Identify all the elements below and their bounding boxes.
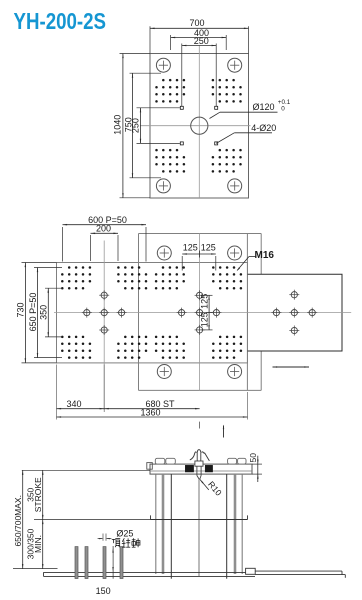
- nozzle hat: [190, 452, 197, 460]
- svg-text:1360: 1360: [140, 407, 160, 417]
- svg-text:MIN.: MIN.: [33, 535, 43, 553]
- dim 700: [149, 26, 151, 53]
- svg-text:250: 250: [131, 118, 141, 133]
- tie bar circles middle: [157, 246, 171, 260]
- label 4-D20: [216, 133, 234, 144]
- svg-text:700: 700: [189, 18, 204, 28]
- svg-text:50: 50: [248, 453, 258, 463]
- ejector hole pattern protrusion: [291, 310, 297, 316]
- side view: platen slab: [150, 464, 252, 474]
- dim 200: [90, 235, 92, 261]
- label D120 with tolerance: [210, 112, 220, 118]
- dim 650 P=50: [34, 267, 62, 269]
- ejector hole pattern fixed platen: [197, 310, 203, 316]
- label R10: [200, 480, 203, 484]
- svg-text:650 P=50: 650 P=50: [28, 293, 38, 332]
- label M16: [249, 256, 256, 258]
- top view: stationary platen plate: [150, 54, 249, 199]
- injection unit protrusion: [248, 274, 343, 351]
- dim 250 top: [181, 44, 183, 107]
- svg-text:125: 125: [200, 294, 210, 309]
- locating ring bore (center circle): [191, 117, 208, 134]
- dim 125 125 vertical: [201, 294, 213, 296]
- centerlines middle view: [54, 312, 351, 314]
- svg-text:Ø25: Ø25: [116, 528, 133, 538]
- svg-text:125: 125: [201, 243, 216, 253]
- svg-text:150: 150: [96, 586, 111, 596]
- dim 50: [252, 463, 262, 465]
- svg-text:650/700MAX.: 650/700MAX.: [13, 495, 23, 547]
- dim 750: [130, 72, 162, 74]
- svg-text:350: 350: [39, 305, 49, 320]
- svg-text:125: 125: [183, 243, 198, 253]
- bottom dims 340 / 680 ST: [56, 365, 58, 420]
- nozzle stem: [196, 466, 198, 475]
- svg-text:STROKE: STROKE: [33, 477, 43, 512]
- dim 150 vertical: [112, 546, 114, 579]
- left clamp notch: [147, 463, 153, 470]
- moving platen bar: [57, 263, 248, 363]
- vertical motion arrow: [223, 426, 225, 438]
- svg-text:M16: M16: [255, 250, 275, 261]
- machine base: [44, 571, 256, 573]
- svg-text:YH-200-2S: YH-200-2S: [14, 8, 107, 34]
- svg-text:340: 340: [66, 399, 81, 409]
- svg-text:730: 730: [16, 302, 26, 317]
- step line on back plate: [246, 234, 248, 391]
- hole grids middle view: [68, 266, 71, 269]
- center line side view: [198, 480, 200, 577]
- ejector hole pattern moving platen: [101, 310, 107, 316]
- svg-text:4-Ø20: 4-Ø20: [251, 123, 276, 133]
- svg-text:125: 125: [200, 312, 210, 327]
- left dim stack: [22, 469, 150, 471]
- tie bar holes (4 corner circles): [156, 58, 170, 72]
- bottom dim 1360: [57, 416, 248, 418]
- svg-text:Ø120: Ø120: [253, 102, 275, 112]
- 4 corner reference squares: [180, 106, 183, 109]
- svg-text:200: 200: [96, 223, 111, 233]
- dim 250 left: [137, 107, 180, 109]
- ejector pins: [75, 547, 78, 579]
- dim 125 125 horizontal: [181, 256, 183, 271]
- dim 600 P=50: [62, 227, 64, 262]
- dim 400: [170, 35, 172, 50]
- T-slot blocks: [185, 465, 193, 472]
- tapped hole grids: [162, 79, 165, 82]
- centerlines top view: [198, 46, 200, 199]
- middle view: fixed platen (back plate): [139, 233, 262, 235]
- svg-text:0: 0: [281, 106, 285, 113]
- svg-text:1040: 1040: [113, 115, 123, 135]
- svg-text:250: 250: [194, 36, 209, 46]
- sprue bushing block: [195, 461, 203, 466]
- dim 1040: [120, 53, 151, 55]
- dim 730: [22, 262, 57, 264]
- horizontal motion arrow: [273, 366, 310, 368]
- dim 350: [45, 287, 62, 289]
- guide rods: [155, 474, 157, 574]
- label ejector shaft (CJK pseudoglyphs): [112, 538, 120, 547]
- bolt heads on slab: [155, 458, 165, 464]
- ejector stroke bracket: [151, 519, 248, 521]
